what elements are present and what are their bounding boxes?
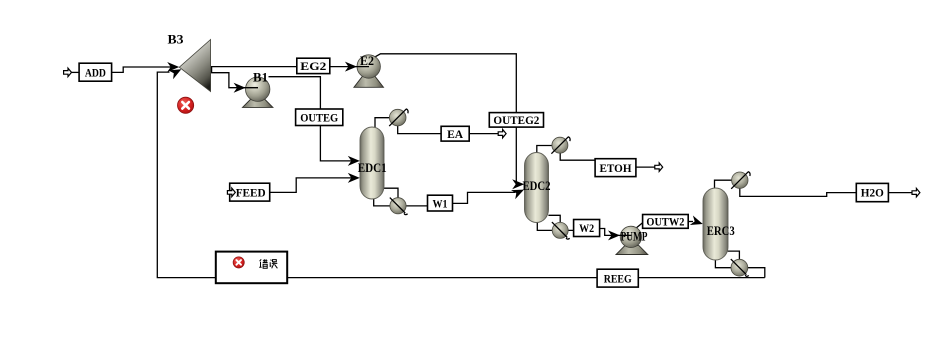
wire EDC2 reboiler piping to W2 — [537, 215, 573, 230]
svg-text:ADD: ADD — [85, 65, 106, 79]
arrowhead into B3 horizontal — [167, 62, 179, 72]
stream label H2O — [856, 183, 888, 201]
product arrow symbol of EA — [498, 129, 506, 137]
wire EDC1 condenser piping — [375, 118, 499, 134]
svg-text:W2: W2 — [579, 221, 594, 235]
wire PUMP to OUTW2 — [637, 222, 644, 228]
stream label OUTW2 — [643, 215, 689, 229]
feed arrow symbol of ADD — [64, 68, 72, 76]
wire B1 to OUTEG to EDC1 — [269, 77, 352, 161]
svg-text:PUMP: PUMP — [621, 229, 648, 243]
stream label EG2 — [297, 58, 330, 73]
svg-text:ETOH: ETOH — [600, 161, 633, 175]
heater E2 — [354, 55, 384, 88]
svg-text:B1: B1 — [253, 70, 268, 84]
error icon at B3 — [178, 97, 194, 113]
wire FEED to EDC1 — [270, 178, 352, 193]
stream label ETOH — [595, 159, 636, 177]
column EDC1 — [360, 127, 384, 199]
product arrow symbol of H2O — [912, 188, 920, 196]
svg-text:EDC1: EDC1 — [358, 161, 387, 175]
reboiler circle of EDC2 — [552, 222, 570, 239]
pump B1 — [243, 77, 273, 107]
svg-text:E2: E2 — [360, 54, 374, 68]
stream label REEG — [597, 269, 638, 287]
reboiler circle of EDC1 — [390, 198, 408, 215]
arrowhead FEED into EDC1 — [348, 173, 360, 183]
reboiler circle of EDC3 — [731, 259, 749, 276]
stream label ADD — [79, 63, 112, 81]
svg-text:REEG: REEG — [604, 271, 632, 285]
wire W2 to PUMP — [600, 229, 612, 236]
wire stub into PUMP center — [612, 234, 631, 236]
stream label EA — [441, 126, 469, 141]
wire ADD to B3 mixer — [71, 67, 172, 72]
mixer B3 — [179, 40, 210, 92]
error icon in message box — [233, 257, 244, 268]
wire recycle REEG riser to B3 — [157, 72, 765, 278]
svg-text:OUTEG: OUTEG — [300, 110, 338, 124]
condenser circle of EDC1 — [389, 109, 408, 126]
svg-text:EDC2: EDC2 — [523, 179, 551, 193]
arrowhead OUTW2 into EDC3 — [690, 216, 703, 226]
wire B3 to EG2 to E2 — [211, 66, 349, 68]
svg-text:W1: W1 — [433, 196, 448, 210]
arrowhead OUTEG2 into EDC2 — [512, 179, 524, 189]
error message box — [216, 252, 287, 284]
arrowhead W2 into PUMP — [608, 230, 620, 240]
column EDC2 — [525, 153, 549, 223]
stream label W2 — [574, 220, 600, 237]
svg-text:H2O: H2O — [861, 186, 884, 200]
wire EDC3 condenser piping to H2O — [715, 180, 913, 196]
wire EDC1 reboiler piping — [374, 188, 428, 206]
svg-text:EA: EA — [447, 127, 463, 141]
svg-text:OUTEG2: OUTEG2 — [493, 113, 539, 127]
svg-text:B3: B3 — [168, 33, 184, 47]
wire stub into E2 center — [350, 66, 369, 68]
stream label OUTEG2 — [489, 113, 543, 128]
stream label OUTEG — [296, 109, 343, 126]
stream label W1 — [428, 195, 453, 211]
condenser circle of EDC2 — [551, 137, 570, 154]
arrowhead into E2 — [345, 62, 357, 72]
svg-text:FEED: FEED — [236, 185, 266, 199]
column EDC3 — [703, 188, 728, 260]
wire W1 to EDC2 — [453, 192, 516, 203]
wire EDC3 reboiler piping to recycle — [715, 251, 764, 278]
svg-text:OUTW2: OUTW2 — [646, 215, 684, 229]
error text (Chinese: cuo wu) glyph strokes — [259, 259, 277, 268]
arrowhead OUTEG into EDC1 — [348, 156, 360, 166]
wire OUTW2 to EDC3 — [688, 221, 693, 223]
stream label FEED with feed arrow — [227, 183, 269, 201]
wire stub into B1 center — [240, 87, 258, 89]
product arrow symbol of ETOH — [655, 163, 663, 171]
arrowhead W1 into EDC2 diagonal — [511, 190, 524, 200]
arrowhead into B3 diagonal from recycle — [168, 69, 181, 79]
svg-text:EG2: EG2 — [300, 59, 326, 73]
wire EDC2 condenser piping to ETOH — [537, 146, 656, 168]
pump PUMP — [616, 226, 648, 254]
condenser circle of EDC3 — [731, 172, 750, 189]
wire B3 to B1 pump — [212, 67, 238, 88]
svg-text:ERC3: ERC3 — [707, 224, 735, 238]
wire E2 to OUTEG2 vertical — [375, 54, 518, 184]
arrowhead into B1 — [234, 83, 246, 93]
